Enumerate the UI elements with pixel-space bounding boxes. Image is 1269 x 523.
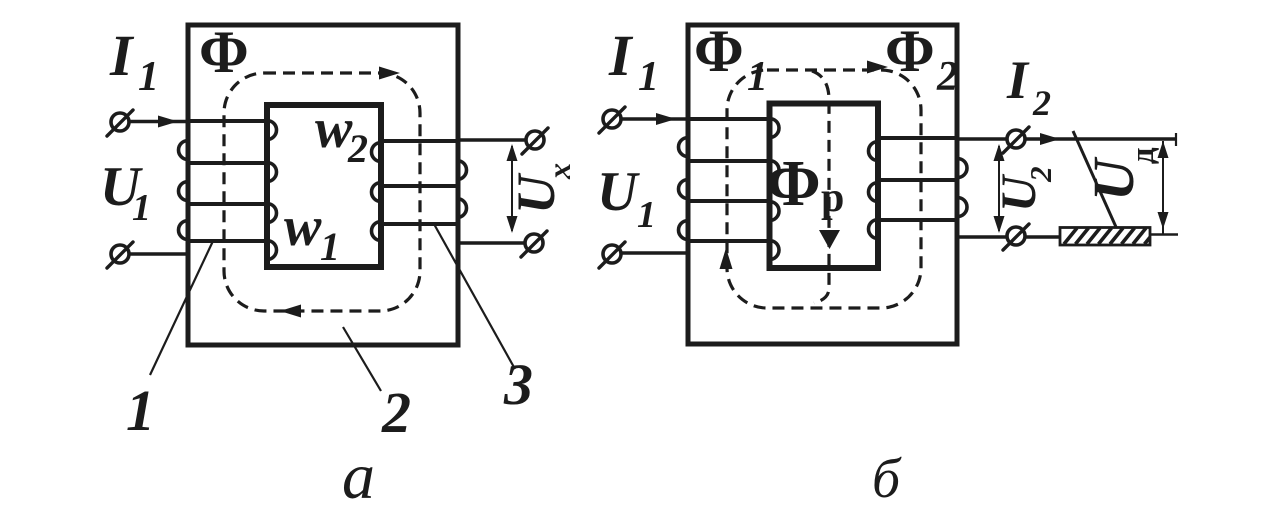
svg-text:Ux: Ux: [506, 163, 577, 214]
core outer (b): [688, 25, 957, 344]
leader line 1 (a): [150, 241, 213, 375]
svg-text:б: б: [872, 448, 902, 510]
dimension arrow up Ux (a): [507, 144, 518, 161]
svg-text:I: I: [109, 23, 135, 88]
svg-text:2: 2: [936, 54, 958, 100]
svg-text:w: w: [284, 196, 322, 258]
terminal bottom-left (a): [111, 245, 129, 263]
primary winding bumps window side (b): [770, 119, 780, 138]
svg-text:1: 1: [126, 378, 155, 443]
leader line 2 (a): [343, 327, 381, 391]
svg-text:1: 1: [747, 54, 768, 100]
dimension arrow up U2 (b): [994, 144, 1005, 161]
svg-text:2: 2: [1032, 83, 1051, 123]
svg-text:1: 1: [320, 224, 340, 269]
svg-text:р: р: [821, 175, 844, 221]
secondary winding bumps outer side (a): [457, 161, 467, 180]
slider wiper arm (b): [1073, 131, 1116, 227]
wire top-right (a): [457, 138, 526, 142]
svg-text:а: а: [342, 440, 375, 513]
wire secondary bottom (b): [957, 235, 1007, 239]
flux arrow up left leg (b): [720, 248, 733, 269]
svg-text:2: 2: [347, 126, 368, 171]
terminal top-left (a): [111, 113, 129, 131]
flux arrow top (a): [379, 67, 400, 80]
primary winding lines (a): [188, 119, 267, 123]
terminal top-left (b): [603, 110, 621, 128]
dimension arrow down U2 (b): [994, 216, 1005, 233]
primary winding bumps outer side (b): [679, 138, 689, 157]
flux outer dashed loop (b): [727, 70, 921, 308]
primary winding bumps window side (a): [267, 121, 277, 140]
svg-text:Φ: Φ: [766, 147, 821, 220]
secondary winding lines (a): [381, 139, 457, 143]
svg-text:Φ: Φ: [694, 18, 744, 84]
secondary winding bumps window side (b): [869, 142, 879, 161]
current arrow I1 (a): [158, 116, 178, 128]
rheostat right reference line (b): [1150, 233, 1178, 236]
primary winding lines (b): [688, 117, 770, 121]
dimension line Ud (b): [1162, 141, 1164, 234]
svg-text:1: 1: [638, 54, 659, 100]
svg-text:Φ: Φ: [199, 19, 249, 85]
svg-text:1: 1: [138, 54, 159, 100]
current arrow I1 (b): [656, 113, 676, 125]
leader line 3 (a): [434, 224, 515, 369]
wire secondary top (b): [957, 137, 1007, 141]
current arrow I2 (b): [1040, 133, 1060, 145]
wire bottom-left (b): [621, 251, 689, 255]
wire I1 input (b): [621, 117, 688, 121]
dimension arrow up Ud (b): [1158, 141, 1169, 158]
secondary winding bumps outer side (b): [958, 159, 968, 178]
svg-text:Φ: Φ: [885, 18, 935, 84]
svg-text:Uд: Uд: [1081, 147, 1161, 201]
svg-text:U2: U2: [990, 166, 1058, 212]
secondary winding lines (b): [878, 136, 958, 140]
core window (b): [770, 104, 879, 269]
terminal bottom-right (a): [525, 234, 543, 252]
rheostat element hatched (b): [1060, 228, 1150, 246]
flux Phi-p arrow down (b): [819, 230, 840, 249]
terminal top-right (a): [526, 131, 544, 149]
terminal bottom-right (b): [1007, 227, 1025, 245]
secondary winding bumps window side (a): [372, 143, 382, 162]
dimension line Ux (a): [511, 146, 513, 231]
flux arrow bottom (a): [280, 305, 301, 318]
dimension line U2 (b): [998, 146, 1000, 231]
svg-text:2: 2: [381, 380, 411, 445]
flux Phi-p dashed line (b): [812, 71, 829, 303]
wire I1 input (a): [129, 120, 188, 124]
svg-text:I: I: [1006, 50, 1030, 110]
svg-text:1: 1: [132, 187, 151, 229]
core window (a): [267, 105, 381, 267]
primary winding bumps outer side (a): [179, 141, 189, 160]
svg-text:3: 3: [503, 352, 533, 417]
core outer (a): [188, 25, 458, 345]
terminal top-right (b): [1007, 130, 1025, 148]
flux path dashed loop (a): [224, 73, 420, 311]
flux arrow top (b): [867, 61, 888, 74]
dimension arrow down Ux (a): [507, 216, 518, 233]
svg-text:1: 1: [637, 194, 656, 236]
wire bottom-right (a): [457, 241, 525, 245]
terminal bottom-left (b): [603, 245, 621, 263]
svg-text:I: I: [608, 23, 634, 88]
svg-text:U: U: [597, 161, 640, 223]
dimension arrow down Ud (b): [1158, 212, 1169, 229]
wire bottom-left (a): [129, 252, 190, 256]
